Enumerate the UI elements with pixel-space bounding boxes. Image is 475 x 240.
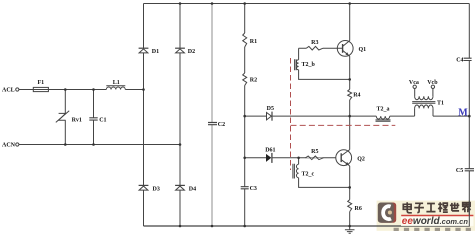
svg-text:R4: R4 [353, 93, 360, 99]
svg-text:D1: D1 [152, 49, 159, 55]
diode D1 [139, 48, 149, 53]
svg-text:T2_a: T2_a [376, 107, 389, 113]
transistor Q2 [336, 150, 352, 166]
svg-text:T2_b: T2_b [302, 62, 316, 68]
svg-text:Vcb: Vcb [427, 80, 438, 86]
svg-text:R2: R2 [250, 77, 257, 83]
svg-text:M: M [458, 108, 468, 119]
wire T1 to node M [433, 115, 469, 117]
svg-text:D3: D3 [153, 187, 160, 193]
fuse F1 [33, 87, 48, 91]
wire T2_a to T1 [390, 115, 415, 117]
node Vca terminal [413, 85, 416, 88]
svg-text:eeworld.com.cn: eeworld.com.cn [402, 216, 469, 227]
resistor R3 [306, 46, 323, 50]
svg-text:ACN: ACN [2, 143, 16, 149]
wire ACL to bridge [48, 89, 106, 91]
wire ACN to bridge [19, 144, 180, 146]
svg-text:D5: D5 [267, 106, 274, 112]
logo red underline [401, 215, 473, 217]
logo eeworld band [401, 216, 473, 226]
capacitor C5 [465, 169, 474, 171]
winding T2_b [296, 60, 298, 70]
wire bottom rail [144, 225, 470, 227]
wire mid node line [245, 115, 377, 117]
svg-text:F1: F1 [37, 80, 44, 86]
svg-text:Rv1: Rv1 [72, 117, 82, 123]
watermark background [377, 201, 475, 231]
diode D3 [139, 185, 149, 190]
ground [345, 226, 355, 233]
wire T2_c bottom to emitter node [299, 178, 350, 188]
wire Q2 emitter down [349, 166, 351, 188]
logo title glyphs [403, 202, 470, 213]
varistor Rv1 [56, 90, 69, 145]
wire D61 feed [245, 157, 336, 159]
wire right edge column [468, 4, 470, 227]
capacitor C4 [464, 58, 472, 60]
wire Q1 emitter down [349, 56, 351, 79]
transformer T1 secondary [415, 105, 433, 116]
svg-text:R5: R5 [311, 149, 318, 155]
capacitor C2 [208, 123, 217, 125]
winding T2_c [296, 158, 298, 178]
winding T2_a [376, 116, 389, 119]
capacitor C1 [89, 90, 97, 145]
resistor R1 [243, 33, 247, 47]
resistor R2 [243, 73, 247, 86]
svg-text:C1: C1 [99, 117, 106, 123]
wire bridge left column [143, 4, 145, 227]
svg-text:C3: C3 [250, 186, 257, 192]
wire L1 to bridge node [125, 89, 143, 91]
resistor R5 [306, 156, 324, 160]
node ACL terminal [16, 88, 19, 91]
svg-text:Q2: Q2 [357, 157, 365, 163]
core of T2_a [376, 120, 391, 121]
capacitor C3 [241, 187, 249, 189]
T2 coupling axis vertical (red dashed) [290, 58, 292, 170]
svg-text:T2_c: T2_c [302, 172, 315, 178]
svg-text:C4: C4 [456, 57, 463, 63]
wire bridge right column [179, 4, 181, 227]
core of T2_b [295, 59, 297, 70]
svg-text:T1: T1 [437, 101, 444, 107]
svg-text:Vca: Vca [409, 80, 419, 86]
diode D61 [266, 153, 272, 163]
T2 coupling axis horizontal (red dashed) [291, 124, 396, 126]
wire T2_b top lead [299, 48, 307, 60]
wire right edge over logo [468, 201, 470, 226]
node ACN terminal [16, 143, 19, 146]
svg-text:L1: L1 [113, 80, 120, 86]
svg-text:R1: R1 [250, 39, 257, 45]
resistor R4 [348, 79, 352, 116]
svg-text:D4: D4 [189, 187, 196, 193]
resistor R6 [348, 187, 352, 226]
eeworld logo icon [378, 203, 396, 223]
wire C2 column [211, 4, 213, 227]
svg-text:Q1: Q1 [359, 47, 367, 53]
wire Q2 collector to mid node [349, 116, 351, 150]
wire Q1 collector to top rail [349, 4, 351, 41]
logo tagline strip [394, 228, 471, 231]
diode D5 [267, 112, 273, 121]
transistor Q1 [337, 41, 353, 57]
node Vcb terminal [431, 85, 434, 88]
wire ACL lead [19, 89, 33, 91]
svg-text:R6: R6 [355, 206, 362, 212]
diode D4 [175, 185, 185, 190]
core of T2_c [293, 164, 295, 179]
svg-text:D2: D2 [188, 49, 195, 55]
svg-text:ACL: ACL [2, 88, 15, 94]
wire R3 to Q1 base [323, 47, 343, 49]
diode D2 [175, 48, 185, 53]
wire T2_b bottom to emitter node [299, 70, 350, 80]
core of T1 [412, 102, 435, 104]
transformer T1 primary [415, 89, 433, 100]
svg-text:D61: D61 [265, 147, 275, 153]
wire top rail [144, 3, 470, 5]
svg-text:C5: C5 [456, 168, 463, 174]
wire R1 R2 C3 column [244, 4, 246, 227]
inductor L1 [106, 86, 125, 90]
svg-text:C2: C2 [218, 122, 225, 128]
svg-text:R3: R3 [311, 40, 318, 46]
